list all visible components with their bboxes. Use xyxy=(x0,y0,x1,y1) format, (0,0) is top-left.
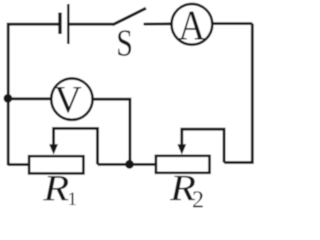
label R1 subscript 1 xyxy=(69,192,76,205)
switch S blade xyxy=(113,8,146,25)
R1 wiper arrowhead xyxy=(49,144,58,154)
wire switch contact to ammeter xyxy=(144,22,172,25)
wire bottom-left to R1 xyxy=(8,163,29,166)
R2 wiper arrowhead xyxy=(177,144,186,154)
label S (switch) xyxy=(118,30,131,56)
wire battery to switch xyxy=(70,23,114,26)
wire voltmeter right branch down to junction xyxy=(93,99,130,164)
label V (voltmeter) xyxy=(55,87,82,113)
wire voltmeter left branch xyxy=(8,97,52,100)
wire ammeter to top-right corner xyxy=(212,22,252,25)
ammeter U=A circle xyxy=(172,4,213,45)
battery cell: short plate (negative) xyxy=(58,13,61,35)
wire top-left segment xyxy=(8,24,58,165)
label R1 letter R xyxy=(43,176,68,200)
label A (ammeter) xyxy=(179,11,205,39)
junction node dot (bottom) xyxy=(125,160,134,169)
label R2 subscript 2 xyxy=(193,191,203,207)
wire bottom middle (R1 step base to R2 left) xyxy=(98,163,156,166)
voltmeter U=V circle xyxy=(51,78,92,119)
wire right side down xyxy=(224,24,252,163)
label R2 letter R xyxy=(170,176,195,200)
junction node dot (left, voltmeter tap) xyxy=(4,94,13,103)
rheostat R1 box xyxy=(29,156,83,173)
rheostat R2 box xyxy=(156,156,210,173)
battery cell: long plate (positive) xyxy=(67,4,70,44)
wire R1 wiper step xyxy=(54,128,98,164)
wire R2 wiper step xyxy=(182,129,224,162)
